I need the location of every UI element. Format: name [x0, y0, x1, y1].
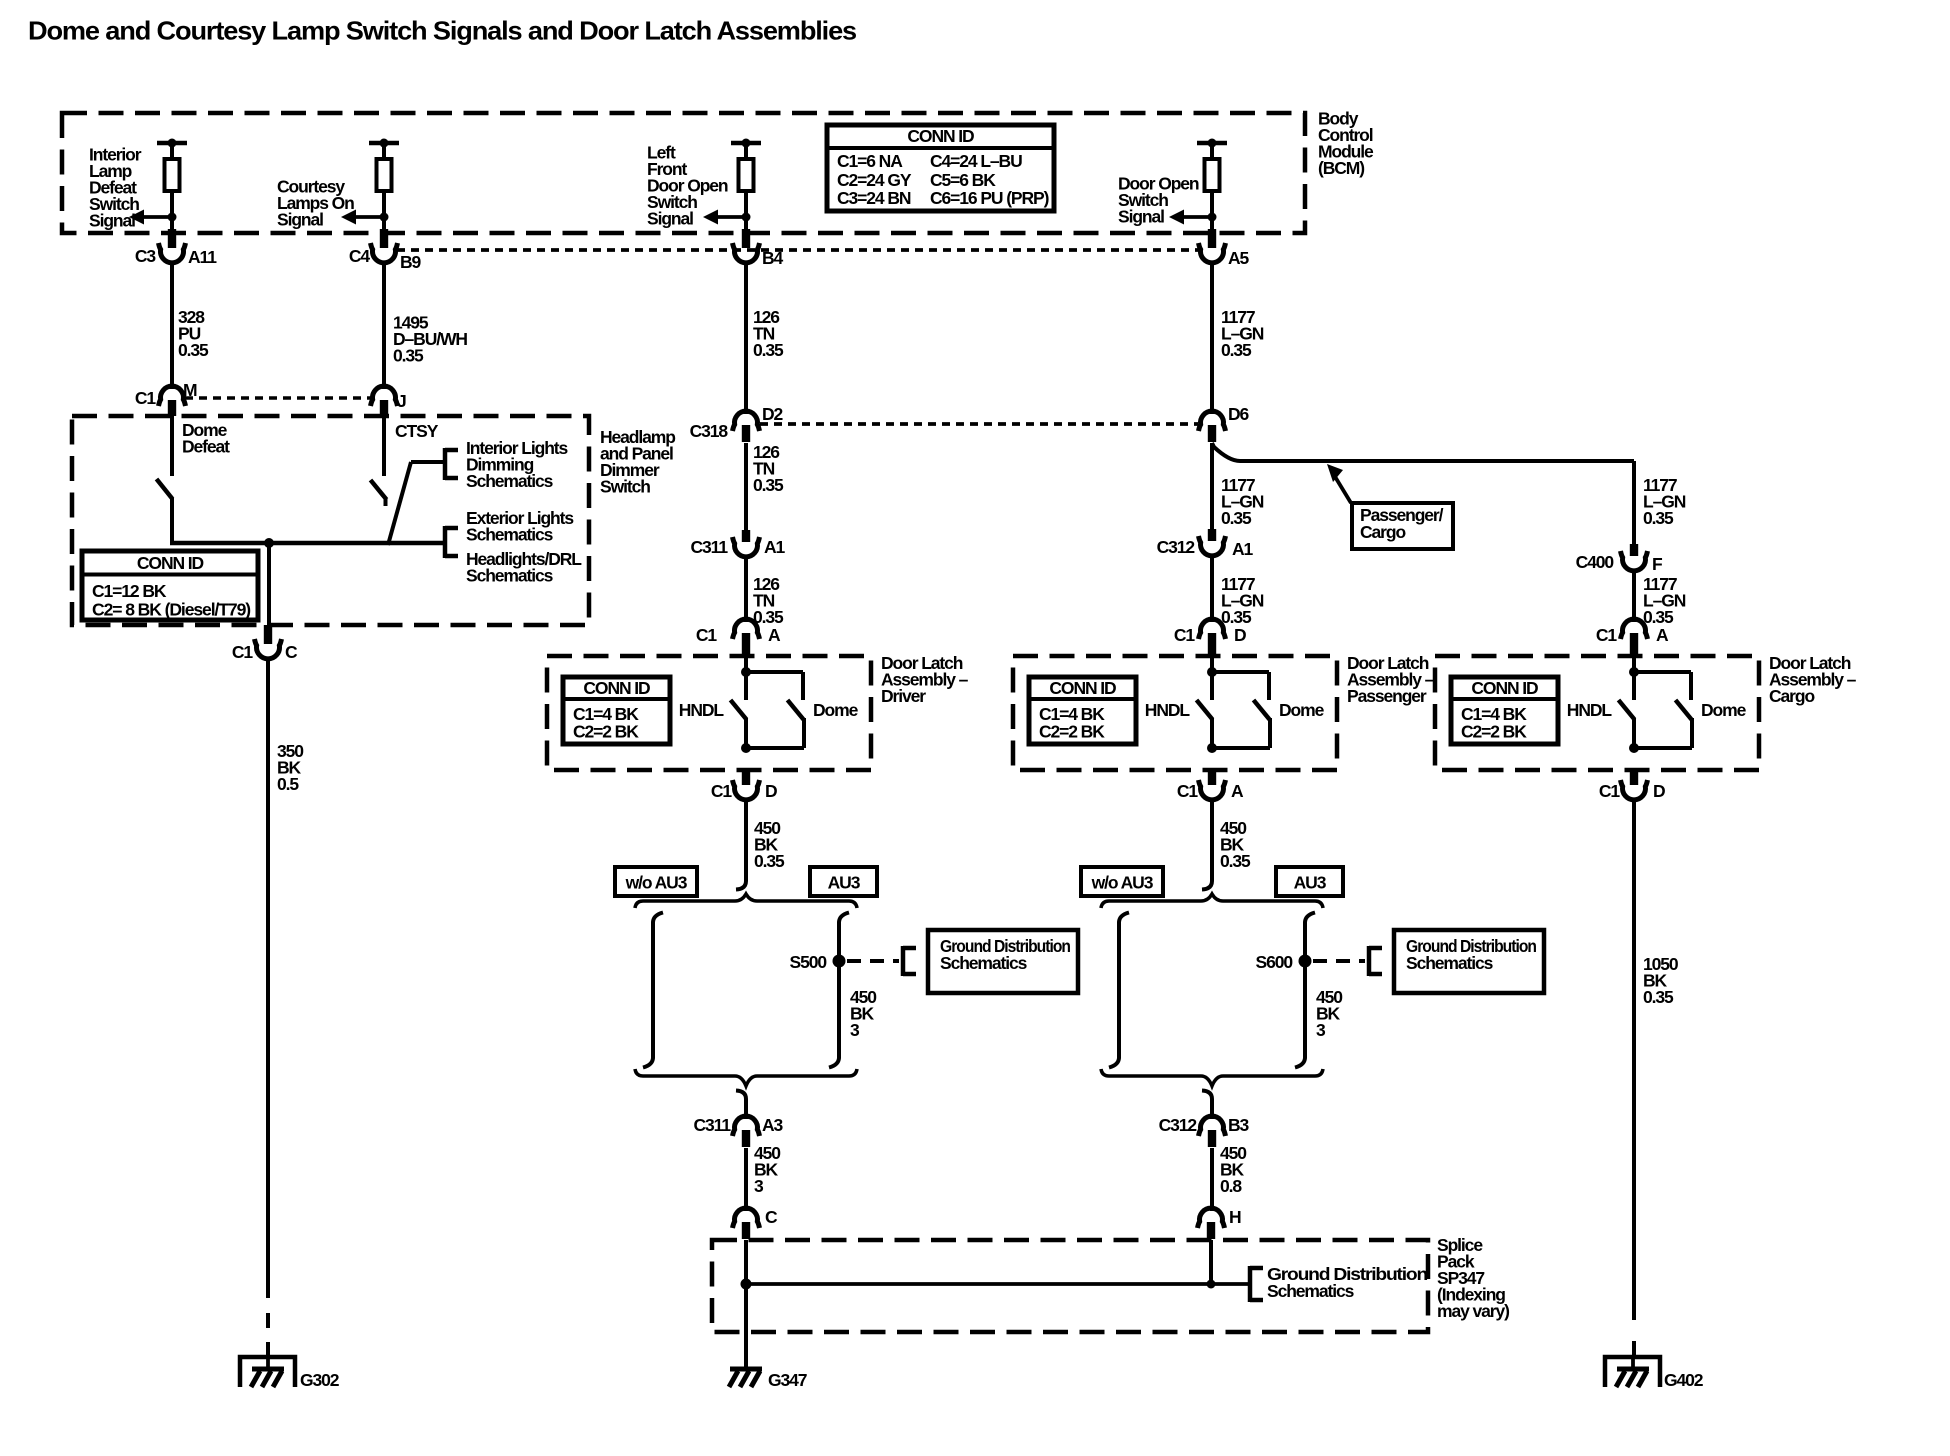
svg-text:C1=12 BK: C1=12 BK: [92, 581, 167, 601]
svg-text:Dome: Dome: [813, 700, 859, 720]
svg-text:C311: C311: [694, 1115, 732, 1135]
svg-text:CONN ID: CONN ID: [907, 126, 974, 146]
svg-text:C1=6 NA: C1=6 NA: [837, 151, 903, 171]
svg-text:C: C: [285, 642, 298, 662]
svg-text:Signal: Signal: [647, 209, 693, 229]
svg-text:A5: A5: [1228, 248, 1250, 268]
svg-text:0.35: 0.35: [1220, 851, 1251, 871]
svg-text:C1: C1: [232, 642, 254, 662]
svg-text:Switch: Switch: [600, 477, 650, 497]
svg-text:C2=2 BK: C2=2 BK: [573, 722, 639, 742]
svg-text:Schematics: Schematics: [1406, 953, 1494, 973]
svg-text:C3: C3: [135, 246, 157, 266]
svg-text:w/o AU3: w/o AU3: [625, 873, 688, 893]
svg-text:CONN ID: CONN ID: [583, 678, 650, 698]
svg-text:0.35: 0.35: [753, 340, 784, 360]
svg-text:Driver: Driver: [881, 686, 926, 706]
svg-text:AU3: AU3: [828, 873, 861, 893]
svg-text:C312: C312: [1159, 1115, 1198, 1135]
svg-text:C1: C1: [1177, 781, 1199, 801]
svg-text:C312: C312: [1157, 537, 1196, 557]
svg-text:C1: C1: [711, 781, 733, 801]
svg-text:D: D: [1234, 625, 1246, 645]
svg-text:C2=2 BK: C2=2 BK: [1461, 722, 1527, 742]
svg-text:Schematics: Schematics: [940, 953, 1028, 973]
svg-text:C2=24 GY: C2=24 GY: [837, 170, 912, 190]
svg-text:C318: C318: [690, 421, 729, 441]
svg-text:0.35: 0.35: [1643, 607, 1674, 627]
svg-text:0.35: 0.35: [753, 475, 784, 495]
svg-text:J: J: [397, 391, 406, 411]
svg-text:S500: S500: [790, 952, 828, 972]
svg-text:3: 3: [1316, 1020, 1326, 1040]
svg-text:Schematics: Schematics: [466, 566, 554, 586]
svg-text:D: D: [1653, 781, 1665, 801]
svg-text:0.35: 0.35: [1643, 508, 1674, 528]
svg-text:C1: C1: [1174, 625, 1196, 645]
svg-text:H: H: [1229, 1207, 1241, 1227]
svg-text:C4=24 L–BU: C4=24 L–BU: [930, 151, 1022, 171]
svg-text:C311: C311: [691, 537, 729, 557]
svg-text:0.5: 0.5: [277, 774, 299, 794]
svg-text:0.35: 0.35: [1221, 508, 1252, 528]
svg-text:A1: A1: [1232, 539, 1254, 559]
svg-text:Dome: Dome: [1701, 700, 1747, 720]
svg-text:HNDL: HNDL: [679, 700, 725, 720]
svg-text:D6: D6: [1228, 404, 1250, 424]
svg-text:AU3: AU3: [1294, 873, 1327, 893]
svg-text:3: 3: [754, 1176, 764, 1196]
svg-text:Schematics: Schematics: [466, 525, 554, 545]
svg-text:3: 3: [850, 1020, 860, 1040]
svg-text:may vary): may vary): [1437, 1301, 1509, 1321]
svg-text:A11: A11: [188, 247, 217, 267]
svg-text:CTSY: CTSY: [395, 421, 439, 441]
svg-text:G347: G347: [768, 1370, 807, 1390]
svg-text:C2=2 BK: C2=2 BK: [1039, 722, 1105, 742]
svg-text:A: A: [1656, 625, 1669, 645]
svg-text:Signal: Signal: [277, 210, 323, 230]
svg-text:0.35: 0.35: [178, 340, 209, 360]
svg-text:Schematics: Schematics: [466, 471, 554, 491]
svg-text:C3=24 BN: C3=24 BN: [837, 188, 911, 208]
svg-text:C: C: [765, 1207, 778, 1227]
svg-text:C4: C4: [349, 246, 371, 266]
svg-text:0.35: 0.35: [1221, 340, 1252, 360]
svg-text:Schematics: Schematics: [1267, 1281, 1355, 1301]
svg-text:S600: S600: [1256, 952, 1294, 972]
svg-text:Dome and Courtesy Lamp Switch: Dome and Courtesy Lamp Switch Signals an…: [28, 16, 857, 46]
svg-text:C2= 8 BK (Diesel/T79): C2= 8 BK (Diesel/T79): [92, 600, 250, 620]
svg-text:C5=6 BK: C5=6 BK: [930, 170, 996, 190]
svg-text:G302: G302: [300, 1370, 340, 1390]
svg-text:Passenger: Passenger: [1347, 686, 1427, 706]
svg-text:HNDL: HNDL: [1567, 700, 1613, 720]
svg-text:C1: C1: [1596, 625, 1618, 645]
svg-text:C1: C1: [135, 388, 157, 408]
svg-text:A1: A1: [764, 537, 786, 557]
svg-text:A: A: [768, 625, 781, 645]
svg-text:C6=16 PU (PRP): C6=16 PU (PRP): [930, 188, 1049, 208]
svg-text:C1: C1: [1599, 781, 1621, 801]
svg-text:(BCM): (BCM): [1318, 158, 1364, 178]
svg-text:D2: D2: [762, 404, 784, 424]
svg-text:w/o AU3: w/o AU3: [1091, 873, 1154, 893]
svg-text:0.35: 0.35: [393, 346, 424, 366]
svg-text:A: A: [1231, 781, 1244, 801]
svg-text:G402: G402: [1664, 1370, 1704, 1390]
svg-text:B4: B4: [762, 248, 784, 268]
svg-text:M: M: [183, 380, 197, 400]
svg-text:B3: B3: [1228, 1115, 1250, 1135]
svg-text:D: D: [765, 781, 777, 801]
svg-text:CONN ID: CONN ID: [137, 553, 204, 573]
svg-text:0.8: 0.8: [1220, 1176, 1242, 1196]
svg-text:F: F: [1652, 554, 1663, 574]
svg-text:Cargo: Cargo: [1769, 686, 1814, 706]
svg-text:Cargo: Cargo: [1360, 522, 1405, 542]
svg-text:Defeat: Defeat: [182, 437, 230, 457]
svg-text:0.35: 0.35: [1643, 987, 1674, 1007]
svg-text:A3: A3: [762, 1115, 784, 1135]
svg-text:HNDL: HNDL: [1145, 700, 1191, 720]
svg-text:C1: C1: [696, 625, 718, 645]
svg-text:Dome: Dome: [1279, 700, 1325, 720]
svg-text:Signal: Signal: [89, 211, 135, 231]
svg-text:CONN ID: CONN ID: [1471, 678, 1538, 698]
svg-text:0.35: 0.35: [754, 851, 785, 871]
svg-text:CONN ID: CONN ID: [1049, 678, 1116, 698]
svg-text:C400: C400: [1576, 552, 1615, 572]
svg-text:0.35: 0.35: [1221, 607, 1252, 627]
svg-text:B9: B9: [400, 252, 422, 272]
svg-text:Signal: Signal: [1118, 207, 1164, 227]
